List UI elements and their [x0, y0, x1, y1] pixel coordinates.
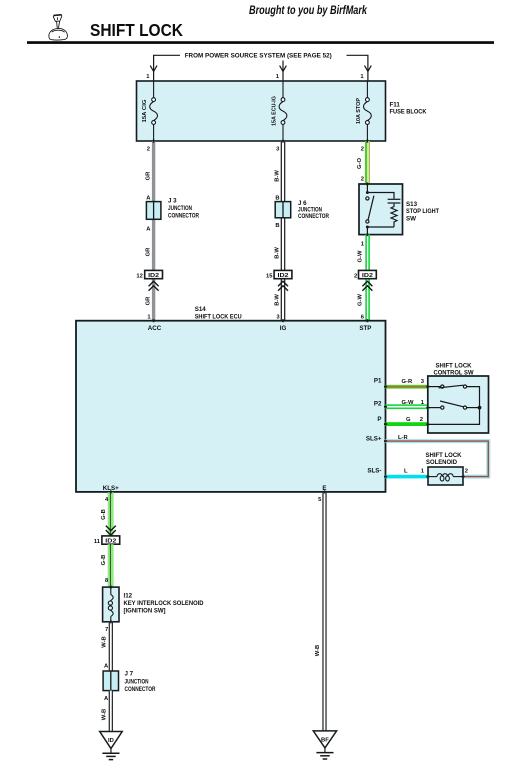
- shift lock control SW box: [428, 376, 489, 433]
- svg-text:11: 11: [94, 539, 101, 545]
- wire G (P): [386, 422, 428, 426]
- svg-text:SW: SW: [406, 215, 416, 222]
- svg-text:W-B: W-B: [315, 645, 321, 656]
- svg-text:GR: GR: [145, 247, 151, 257]
- label F11 FUSE BLOCK: [390, 101, 427, 115]
- svg-text:FUSE BLOCK: FUSE BLOCK: [390, 109, 427, 116]
- label SHIFT LOCK CONTROL SW: [434, 362, 474, 376]
- svg-text:SHIFT LOCK: SHIFT LOCK: [436, 362, 473, 369]
- svg-text:G-B: G-B: [101, 555, 107, 566]
- svg-text:P: P: [377, 416, 381, 423]
- wire G-O right (fuse to S13): [365, 141, 370, 185]
- svg-text:1: 1: [421, 468, 425, 474]
- svg-text:G-O: G-O: [357, 158, 363, 169]
- header credit text: [249, 3, 368, 17]
- svg-text:2: 2: [465, 468, 468, 474]
- svg-text:L: L: [404, 468, 408, 474]
- svg-text:B-W: B-W: [275, 170, 281, 182]
- shift lever icon: [49, 14, 68, 40]
- svg-text:3: 3: [421, 379, 425, 385]
- wire G-B (KLS+ branch upper): [108, 492, 114, 536]
- control SW internals: [428, 385, 482, 424]
- label S13 STOP LIGHT SW: [406, 201, 439, 222]
- solenoid coil symbol: [428, 474, 463, 481]
- wire G-R (P1): [386, 385, 428, 389]
- svg-text:2: 2: [147, 146, 150, 152]
- svg-text:B: B: [275, 195, 279, 201]
- svg-text:ID2: ID2: [105, 539, 116, 545]
- svg-text:2: 2: [354, 273, 357, 279]
- svg-text:7: 7: [105, 627, 108, 633]
- svg-text:CONTROL SW: CONTROL SW: [434, 370, 474, 377]
- svg-text:A: A: [146, 227, 151, 233]
- svg-text:B: B: [275, 223, 279, 229]
- arrowhead right: [365, 66, 372, 72]
- svg-text:P2: P2: [374, 401, 382, 408]
- svg-text:JUNCTION: JUNCTION: [125, 678, 149, 685]
- svg-text:J 7: J 7: [125, 671, 134, 678]
- svg-text:SLS-: SLS-: [367, 468, 381, 475]
- svg-text:ACC: ACC: [148, 325, 162, 332]
- svg-text:12: 12: [136, 273, 142, 279]
- chevron up left: [149, 281, 159, 291]
- svg-text:1: 1: [360, 74, 364, 80]
- svg-text:STOP LIGHT: STOP LIGHT: [406, 208, 439, 215]
- svg-text:G-B: G-B: [101, 509, 107, 520]
- svg-text:JUNCTION: JUNCTION: [168, 205, 192, 212]
- junction connector J7: [103, 671, 118, 691]
- svg-text:[IGNITION SW]: [IGNITION SW]: [124, 607, 166, 614]
- stop light switch S13: [359, 184, 403, 235]
- svg-text:STP: STP: [359, 325, 371, 332]
- svg-text:S13: S13: [406, 201, 418, 208]
- svg-text:IG: IG: [280, 325, 287, 332]
- junction connector J3: [146, 202, 161, 220]
- svg-text:G-R: G-R: [402, 379, 413, 385]
- svg-text:W-B: W-B: [102, 636, 108, 647]
- svg-text:2: 2: [361, 146, 364, 152]
- label S14 SHIFT LOCK ECU: [195, 306, 242, 320]
- svg-text:GR: GR: [145, 171, 151, 181]
- svg-text:A: A: [104, 696, 109, 702]
- svg-text:CONNECTOR: CONNECTOR: [125, 686, 156, 693]
- svg-text:L-R: L-R: [398, 435, 408, 441]
- svg-text:A: A: [146, 195, 151, 201]
- chevron up middle: [278, 281, 288, 291]
- svg-text:S14: S14: [195, 306, 207, 313]
- svg-text:ID2: ID2: [278, 273, 289, 279]
- svg-text:2: 2: [361, 177, 364, 183]
- wire B-W middle vertical: [281, 141, 286, 321]
- svg-text:2: 2: [420, 417, 423, 423]
- svg-text:SLS+: SLS+: [366, 436, 382, 443]
- fuse block F11: [137, 81, 386, 141]
- svg-text:G-W: G-W: [402, 400, 414, 406]
- svg-text:P1: P1: [374, 378, 382, 385]
- svg-text:SHIFT LOCK: SHIFT LOCK: [90, 20, 183, 40]
- svg-text:CONNECTOR: CONNECTOR: [298, 213, 329, 220]
- svg-text:ID2: ID2: [362, 273, 373, 279]
- power source bracket line: [154, 55, 368, 80]
- pin tick stubs at box edges: [111, 140, 465, 624]
- svg-text:G: G: [406, 417, 411, 423]
- svg-text:Brought to you by BirfMark: Brought to you by BirfMark: [249, 3, 368, 17]
- svg-text:A: A: [104, 664, 109, 670]
- svg-text:10A STOP: 10A STOP: [356, 98, 362, 124]
- svg-text:1: 1: [146, 74, 150, 80]
- fuse 15A CIG: [150, 81, 158, 141]
- label I12 KEY INTERLOCK SOLENOID: [124, 593, 204, 615]
- chevron down KLS+: [106, 526, 116, 536]
- wire W-B (J7 to ground): [109, 691, 113, 732]
- svg-text:SHIFT LOCK ECU: SHIFT LOCK ECU: [195, 313, 242, 320]
- page title SHIFT LOCK: [90, 20, 183, 40]
- wire W-B (E branch): [322, 492, 326, 731]
- svg-text:15A ECU-IG: 15A ECU-IG: [271, 96, 277, 126]
- svg-text:3: 3: [276, 146, 280, 152]
- wire L-R (SLS+): [386, 441, 489, 477]
- svg-text:CONNECTOR: CONNECTOR: [168, 212, 199, 219]
- svg-text:I12: I12: [124, 593, 133, 600]
- arrowhead middle: [280, 66, 287, 72]
- svg-text:5: 5: [318, 497, 322, 503]
- svg-text:15A CIG: 15A CIG: [142, 99, 148, 122]
- title rule: [27, 41, 494, 44]
- wire G-W right (S13 to ECU): [365, 235, 370, 321]
- svg-text:SHIFT LOCK: SHIFT LOCK: [426, 452, 463, 459]
- wire W-B (I12 to J7): [109, 622, 113, 671]
- svg-text:ID2: ID2: [148, 273, 159, 279]
- label SHIFT LOCK SOLENOID: [426, 452, 463, 466]
- svg-text:KEY INTERLOCK SOLENOID: KEY INTERLOCK SOLENOID: [124, 600, 204, 607]
- svg-text:F11: F11: [390, 101, 401, 108]
- svg-text:FROM POWER SOURCE SYSTEM (SEE: FROM POWER SOURCE SYSTEM (SEE PAGE 52): [185, 53, 332, 60]
- svg-text:BF: BF: [321, 738, 329, 744]
- ground BF: [313, 731, 336, 759]
- shift lock ECU S14: [76, 321, 386, 492]
- chevron up right: [362, 281, 372, 291]
- svg-text:J 3: J 3: [168, 198, 177, 205]
- ground ID: [100, 732, 123, 760]
- shift lock solenoid box: [428, 467, 463, 485]
- svg-text:B-W: B-W: [275, 247, 281, 259]
- svg-text:1: 1: [361, 241, 365, 247]
- svg-text:1: 1: [276, 74, 280, 80]
- fuse 10A STOP: [364, 81, 372, 141]
- svg-text:B-W: B-W: [275, 294, 281, 306]
- wire G-B lower: [108, 544, 114, 587]
- svg-text:G-W: G-W: [357, 250, 363, 262]
- fuse 15A ECU-IG: [279, 81, 287, 141]
- arrowhead left: [150, 66, 157, 72]
- wire L (SLS-): [386, 475, 429, 479]
- svg-text:ID: ID: [108, 738, 114, 744]
- wire G-W (P2): [386, 404, 428, 409]
- svg-text:GR: GR: [145, 296, 151, 306]
- key interlock solenoid I12: [103, 587, 119, 622]
- junction connector J6: [275, 202, 291, 218]
- svg-text:W-B: W-B: [102, 709, 108, 720]
- svg-text:15: 15: [266, 273, 273, 279]
- svg-text:G-W: G-W: [357, 294, 363, 306]
- wire GR left vertical: [152, 141, 155, 321]
- svg-text:SOLENOID: SOLENOID: [426, 459, 457, 466]
